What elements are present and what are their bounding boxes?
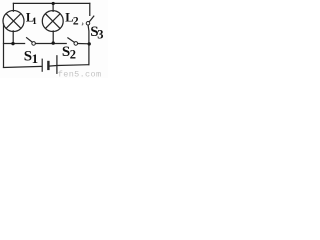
- switch S2 pivot circle: [74, 42, 78, 46]
- wire L2 top stub: [52, 3, 54, 11]
- wire L1 bottom stub: [12, 31, 14, 44]
- svg-text:1: 1: [32, 51, 38, 66]
- wire right rail lower (S3 to bottom corner): [87, 25, 90, 65]
- battery short plate: [47, 62, 49, 69]
- wire left rail: [3, 24, 5, 68]
- switch S3 pivot circle: [86, 22, 90, 26]
- label L2: [65, 11, 79, 28]
- switch S3 blade: [89, 16, 94, 22]
- wire middle segment A (left rail to S1): [4, 43, 25, 45]
- label S3: [90, 24, 103, 41]
- wire middle segment C (S2 to right rail): [78, 43, 90, 45]
- wire bottom rail left: [4, 66, 42, 67]
- lamp L2: [42, 11, 63, 32]
- wire middle segment B (S1 to S2): [36, 43, 67, 45]
- svg-text:2: 2: [70, 48, 76, 62]
- label S2: [62, 44, 76, 62]
- svg-text:fen5.com: fen5.com: [58, 70, 102, 78]
- wire bottom rail right: [50, 65, 89, 66]
- label L1: [26, 10, 37, 26]
- svg-text:1: 1: [32, 16, 37, 26]
- lamp L1: [3, 11, 24, 32]
- node dot L2-bottom junction: [52, 41, 55, 44]
- switch S1 blade: [27, 38, 33, 42]
- node dot right rail / middle wire junction: [88, 42, 91, 45]
- wire top rail: [13, 2, 89, 4]
- svg-text:2: 2: [73, 15, 79, 27]
- battery second long plate: [56, 56, 58, 74]
- wire right rail upper (to S3 top contact): [89, 3, 91, 15]
- svg-text:3: 3: [97, 27, 103, 41]
- label S1: [24, 49, 38, 67]
- battery long plate: [41, 59, 43, 71]
- switch S1 pivot circle: [32, 42, 36, 46]
- node dot L1-bottom junction: [11, 42, 14, 45]
- switch S2 blade: [68, 38, 74, 42]
- wire L2 bottom stub: [52, 31, 54, 44]
- stray mark (scan artifact left of S3 circle): [82, 23, 83, 25]
- wire L1 top stub: [12, 3, 14, 11]
- node dot top rail / L2 junction: [52, 2, 55, 5]
